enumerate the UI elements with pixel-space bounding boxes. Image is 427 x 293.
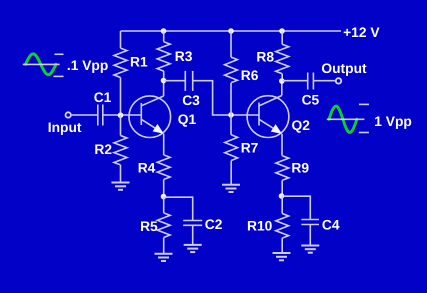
svg-text:R10: R10 [247, 219, 273, 234]
wire emitter node to R5 [163, 197, 165, 213]
+12V power rail wire [121, 30, 342, 32]
wire R2 to ground [120, 165, 122, 183]
node base Q1 [118, 112, 124, 118]
svg-text:R5: R5 [140, 219, 158, 234]
wire C3 to Q2 base [193, 81, 259, 115]
svg-text:C1: C1 [94, 90, 112, 105]
svg-text:R2: R2 [94, 142, 112, 157]
wire R5 to ground [163, 238, 165, 254]
wire collector node to C3 [164, 80, 186, 82]
wire R7 to ground [230, 161, 232, 185]
svg-text:1 Vpp: 1 Vpp [374, 114, 412, 129]
wire input to C1 [72, 114, 98, 116]
transistor Q1 [129, 96, 171, 138]
ground C4 [301, 246, 319, 253]
ground R10 [273, 253, 291, 260]
wire R6 to base node [230, 83, 232, 115]
svg-text:Q1: Q1 [178, 112, 197, 127]
wire R9 to emitter node [281, 180, 283, 196]
capacitor C4 [301, 220, 319, 225]
svg-text:R3: R3 [175, 49, 193, 64]
node rail-R8 [279, 28, 285, 34]
wire C2 to ground [192, 225, 194, 245]
node emitter Q2 [279, 193, 285, 199]
node emitter Q1 [161, 194, 167, 200]
wire base node to R7 [230, 115, 232, 135]
capacitor C5 [308, 73, 314, 90]
wire Q2 emitter to R9 [281, 134, 283, 156]
wire rail to R8 [281, 31, 283, 44]
svg-text:R4: R4 [138, 160, 156, 175]
wire rail to R1 [120, 31, 122, 48]
svg-text:C4: C4 [322, 217, 340, 232]
wire C5 to output terminal [313, 80, 335, 82]
resistor R10 [276, 214, 289, 239]
output terminal [336, 78, 341, 83]
wire emitter node to C2 [164, 197, 193, 220]
wire R3 to collector node [163, 71, 165, 80]
wire collector node to C5 [282, 80, 308, 82]
wire rail to R3 [163, 31, 165, 42]
node rail-R6 [228, 28, 234, 34]
input sine wave symbol [23, 54, 64, 77]
svg-text:R1: R1 [130, 54, 148, 69]
wire Q2 collector to R8 node [281, 81, 283, 96]
input terminal [66, 112, 71, 117]
svg-text:+12 V: +12 V [343, 25, 380, 40]
output sine wave symbol [327, 104, 369, 132]
capacitor C1 [98, 105, 103, 126]
wire C1 to base node [103, 114, 142, 116]
node collector Q2 [279, 78, 285, 84]
svg-text:Output: Output [321, 61, 367, 76]
wire R8 to collector node [281, 74, 283, 81]
wire R10 to ground [281, 238, 283, 253]
node base Q2 [228, 112, 234, 118]
svg-text:C5: C5 [302, 92, 320, 107]
resistor R7 [225, 135, 238, 161]
resistor R4 [157, 155, 170, 180]
svg-text:C3: C3 [182, 93, 200, 108]
wire R1 to base node [120, 78, 122, 116]
svg-text:.1 Vpp: .1 Vpp [67, 58, 108, 73]
ground C2 [184, 245, 202, 252]
resistor R1 [114, 48, 127, 77]
ground R2 [112, 183, 130, 190]
wire emitter node to R10 [281, 196, 283, 214]
wire C4 to ground [309, 225, 311, 246]
resistor R8 [276, 44, 289, 73]
capacitor C2 [183, 221, 202, 226]
wire emitter node to C4 [282, 196, 311, 219]
svg-text:R6: R6 [241, 68, 259, 83]
wire R4 to emitter node [163, 180, 165, 197]
transistor Q2 [247, 96, 289, 138]
ground R5 [155, 254, 173, 261]
capacitor C3 [185, 71, 192, 91]
resistor R2 [114, 136, 127, 165]
resistor R3 [157, 42, 170, 71]
svg-text:R9: R9 [291, 161, 309, 176]
svg-text:Q2: Q2 [292, 118, 311, 133]
resistor R9 [276, 156, 289, 181]
svg-text:C2: C2 [205, 217, 223, 232]
node rail-R3 [161, 28, 167, 34]
resistor R6 [225, 57, 238, 83]
svg-text:Input: Input [48, 120, 82, 135]
wire Q1 collector to R3 node [163, 81, 165, 97]
wire Q1 emitter to R4 [163, 134, 165, 155]
resistor R5 [157, 213, 170, 238]
wire base node to R2 [120, 115, 122, 136]
node collector Q1 [161, 78, 167, 84]
ground R7 [222, 185, 240, 192]
svg-text:R7: R7 [241, 141, 259, 156]
svg-text:R8: R8 [256, 49, 274, 64]
wire rail to R6 [230, 31, 232, 57]
